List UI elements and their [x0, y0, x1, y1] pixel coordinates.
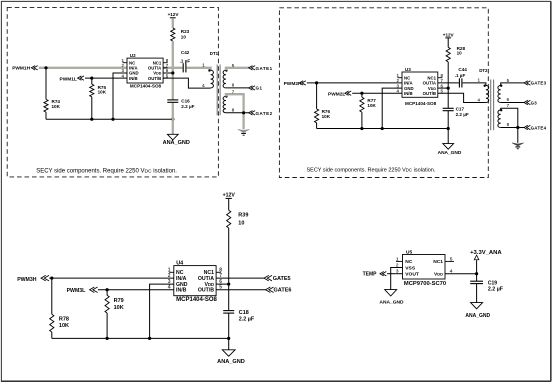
- port connector GATE6: [266, 287, 274, 293]
- svg-text:10: 10: [457, 51, 463, 56]
- port connector GATE2: [249, 111, 255, 115]
- wire TEMP to U5 VOUT: [387, 273, 402, 275]
- svg-text:C18: C18: [239, 310, 249, 316]
- svg-text:PWM1H: PWM1H: [12, 66, 30, 72]
- wire U4 OUT/A to GATE5: [216, 277, 264, 279]
- svg-text:10K: 10K: [59, 323, 69, 329]
- wire R78 to ground rail: [51, 332, 53, 338]
- wire DT1 pin 5 to GATE1 (highlighted net): [226, 68, 250, 71]
- wire PWM1L to U2 INB: [85, 77, 127, 79]
- svg-text:ANA_GND: ANA_GND: [379, 299, 404, 305]
- svg-text:3: 3: [396, 269, 399, 275]
- svg-text:C44: C44: [458, 67, 467, 72]
- isolation boundary box (SECY side, left): [7, 7, 218, 177]
- pin stub U3 pin 8: [438, 77, 443, 79]
- svg-text:PWM2L: PWM2L: [328, 91, 345, 97]
- wire R39 to VDD and C18: [228, 228, 230, 310]
- wire DT2 pin 6 to G3: [501, 102, 525, 104]
- port connector GATE5: [264, 275, 272, 281]
- svg-text:+12V: +12V: [168, 12, 180, 17]
- svg-text:PWM3H: PWM3H: [17, 277, 37, 283]
- svg-text:PWM2H: PWM2H: [284, 81, 302, 87]
- ground ANA_GND (section 3): [222, 350, 235, 356]
- ground ANA_GND (U5 VSS): [385, 290, 397, 296]
- wire DT2 pin 8 to GATE4: [501, 127, 525, 129]
- wire DT2 pin 5 to GATE3: [501, 83, 525, 86]
- transformer DT2 secondary winding upper: [498, 86, 501, 103]
- svg-text:2: 2: [396, 263, 399, 269]
- junction GATE2/ground column: [242, 111, 245, 114]
- svg-text:10K: 10K: [367, 103, 376, 108]
- capacitor C16: [167, 100, 178, 102]
- ground ANA_GND (section 1): [167, 134, 178, 140]
- port connector PWM3L: [90, 287, 98, 293]
- svg-text:1: 1: [396, 256, 399, 262]
- wire U5 VDD to +3.3V_ANA and C19: [445, 273, 477, 275]
- driver IC U2 body: [127, 58, 163, 83]
- svg-text:GATE2: GATE2: [256, 111, 273, 116]
- ground rail wire (section 2): [317, 128, 449, 130]
- resistor R79: [105, 295, 109, 313]
- svg-text:R79: R79: [114, 298, 124, 304]
- svg-text:C17: C17: [456, 107, 465, 112]
- svg-text:10K: 10K: [322, 114, 331, 119]
- wire U3 OUTA to C44: [438, 82, 459, 84]
- svg-text:+12V: +12V: [223, 193, 236, 199]
- junction GND drop/ground rail (section 2): [381, 127, 384, 130]
- transformer DT2 primary winding: [486, 86, 489, 103]
- svg-text:R78: R78: [59, 316, 69, 322]
- power +12V bar symbol: [170, 17, 176, 19]
- svg-text:+3.3V_ANA: +3.3V_ANA: [470, 250, 502, 256]
- junction VDD pin/+12V column: [171, 71, 174, 74]
- svg-text:C42: C42: [181, 50, 190, 55]
- wire PWM1L junction down to R75: [91, 78, 93, 84]
- port connector PWM1L: [78, 76, 84, 80]
- pin stub U3 pin 1: [398, 77, 403, 79]
- power +12V bar symbol (section 2): [445, 37, 451, 39]
- svg-text:10K: 10K: [98, 90, 107, 95]
- junction U4 VDD/+12V column: [227, 283, 230, 286]
- wire PWM2L junction down to R77: [361, 93, 363, 97]
- junction PWM3L/R79: [106, 288, 109, 291]
- svg-text:MCP1404-SO8: MCP1404-SO8: [405, 101, 437, 106]
- wire R77 to ground rail: [361, 112, 363, 128]
- svg-text:NC: NC: [405, 259, 413, 265]
- svg-text:IN/B: IN/B: [404, 91, 413, 96]
- temp sensor IC U5 body: [403, 255, 446, 280]
- ground rail wire (section 3): [52, 337, 229, 339]
- wire U4 OUT/B to GATE6: [216, 289, 266, 291]
- svg-text:GATE1: GATE1: [256, 66, 273, 71]
- wire U4 GND pin to ground rail: [150, 284, 174, 338]
- junction PWM3H/R78: [50, 277, 53, 280]
- wire U3 VDD pin to +12V column: [438, 87, 448, 89]
- svg-text:OUT/B: OUT/B: [423, 91, 436, 96]
- wire DT1 pin 8 to GATE2: [226, 112, 250, 114]
- wire PWM3H junction down to R78: [51, 278, 53, 314]
- svg-text:+12V: +12V: [443, 32, 455, 37]
- junction U3 VDD/+12V column: [447, 87, 450, 90]
- wire C42 to DT1 primary (highlighted net): [187, 68, 211, 71]
- svg-text:MCP1404-SO8: MCP1404-SO8: [130, 84, 162, 89]
- transformer DT2 secondary winding lower: [498, 110, 501, 128]
- phase dot DT1 primary: [208, 69, 210, 71]
- port connector G3: [524, 100, 530, 104]
- wire U3 GND pin to ground rail: [382, 88, 402, 128]
- transformer DT1 secondary winding lower: [223, 96, 226, 112]
- svg-text:VOUT: VOUT: [405, 272, 419, 278]
- pin stub U4 pin 8: [216, 271, 221, 273]
- capacitor C44: [459, 78, 462, 87]
- resistor R75: [90, 84, 94, 97]
- transformer DT1 primary winding: [211, 70, 214, 88]
- wire U5 VSS to ANA_GND: [391, 268, 403, 290]
- wire R75 to ground rail: [91, 97, 93, 119]
- wire U4 VDD pin to +12V column: [216, 283, 229, 285]
- pin stub U2 pin 5: [163, 77, 168, 79]
- svg-text:ANA_GND: ANA_GND: [438, 150, 462, 156]
- junction R77/ground rail: [360, 127, 363, 130]
- svg-text:10K: 10K: [52, 104, 61, 109]
- svg-text:.1 µF: .1 µF: [455, 73, 466, 78]
- capacitor C18: [223, 311, 234, 314]
- svg-text:U3: U3: [405, 67, 411, 72]
- svg-text:10: 10: [181, 35, 187, 40]
- junction node PWM1H/R74: [44, 66, 47, 69]
- svg-text:VSS: VSS: [405, 265, 416, 271]
- svg-text:DT1: DT1: [210, 51, 219, 56]
- port connector GATE1: [249, 66, 255, 70]
- svg-text:GATE5: GATE5: [273, 276, 291, 282]
- wire R76 to ground rail: [316, 123, 318, 129]
- svg-text:GATE3: GATE3: [531, 81, 547, 86]
- resistor R76: [315, 109, 319, 123]
- wire C16 to ANA_GND (highlighted net): [172, 103, 174, 135]
- ground symbol (DT2 secondary): [512, 143, 524, 149]
- resistor R23: [171, 28, 175, 41]
- svg-text:4: 4: [168, 285, 171, 291]
- junction PWM2L/R77: [360, 92, 363, 95]
- svg-text:.1 µF: .1 µF: [180, 59, 191, 64]
- svg-text:2.2 µF: 2.2 µF: [488, 286, 504, 292]
- port connector G1: [249, 86, 255, 90]
- resistor R74: [44, 99, 48, 112]
- junction ground rail/ANA_GND column (section 3): [227, 337, 230, 340]
- svg-text:NC1: NC1: [433, 259, 443, 265]
- transformer DT1 core: [217, 65, 220, 116]
- wire PWM3H to U4 IN/A: [49, 277, 174, 279]
- phase dot DT1 secondary upper: [225, 69, 227, 71]
- power symbol +3.3V_ANA: [474, 255, 479, 260]
- port connector PWM1H: [31, 66, 37, 70]
- pin stub U4 pin 1: [169, 271, 174, 273]
- wire C17 to ANA_GND (section 2): [447, 111, 449, 144]
- wire PWM1H junction down to R74: [45, 68, 47, 100]
- svg-text:5: 5: [450, 256, 453, 262]
- svg-text:10K: 10K: [114, 305, 124, 311]
- svg-text:ANA_GND: ANA_GND: [163, 140, 190, 146]
- driver IC U3 body: [402, 72, 438, 97]
- svg-text:PWM1L: PWM1L: [60, 76, 77, 82]
- wire PWM2H junction down to R76: [316, 83, 318, 109]
- svg-text:OUT/B: OUT/B: [198, 288, 214, 294]
- wire DT1 pin 6 to G1: [226, 87, 250, 89]
- svg-text:R23: R23: [181, 29, 190, 34]
- resistor R28: [446, 47, 450, 62]
- port connector GATE4: [524, 125, 530, 129]
- ground ANA_GND (C19): [471, 303, 483, 309]
- svg-text:ANA_GND: ANA_GND: [217, 359, 245, 365]
- wire U2 OUTB to DT1 primary pin 4: [163, 78, 211, 88]
- wire R79 to ground rail: [106, 313, 108, 338]
- junction U5 VDD/C19: [475, 272, 478, 275]
- junction GND drop/ground rail (section 3): [148, 337, 151, 340]
- junction R75/ground rail: [90, 118, 93, 121]
- wire +12V to R23 (highlighted net): [172, 18, 174, 28]
- phase dot DT1 secondary lower: [225, 95, 227, 97]
- resistor R78: [50, 314, 54, 332]
- ground ANA_GND (section 2): [443, 144, 454, 150]
- svg-text:SECY side components. Require: SECY side components. Require 2250 VDC i…: [36, 168, 177, 174]
- port connector GATE3: [524, 81, 530, 85]
- pin stub U5 pin 5: [445, 260, 454, 262]
- pin stub U5 pin 1: [396, 260, 403, 262]
- svg-text:2.2 µF: 2.2 µF: [239, 317, 255, 323]
- wire DT2 pin 7 to ground column (section 2): [501, 108, 518, 143]
- svg-text:PWM3L: PWM3L: [67, 288, 87, 294]
- capacitor C42: [183, 63, 186, 72]
- junction PWM2H/R76: [315, 81, 318, 84]
- transformer DT2 core: [491, 80, 494, 131]
- wire PWM3L to U4 IN/B: [98, 289, 174, 291]
- port connector TEMP: [380, 272, 386, 276]
- wire PWM2H to U3 INA: [307, 82, 402, 84]
- port connector PWM2H: [299, 81, 305, 85]
- phase dot DT2 secondary upper: [500, 85, 502, 87]
- isolation boundary box (SECY side, right): [279, 8, 488, 178]
- wire DT1 pin 7 to ground column (highlighted net): [226, 94, 244, 129]
- svg-text:TEMP: TEMP: [363, 272, 378, 278]
- junction R79/ground rail: [106, 337, 109, 340]
- wire U2 OUTA to C42 (highlighted net): [163, 67, 183, 69]
- wire R74 to ground rail: [45, 112, 47, 119]
- resistor R77: [360, 97, 364, 112]
- wire R28 to VDD and C17: [447, 62, 449, 108]
- wire C19 to ANA_GND: [476, 284, 478, 303]
- port connector PWM3H: [41, 275, 49, 281]
- junction ground rail/ANA_GND column (section 2): [447, 127, 450, 130]
- svg-text:GATE4: GATE4: [531, 125, 547, 130]
- junction GATE4/ground column: [516, 126, 519, 129]
- svg-text:2.2 µF: 2.2 µF: [181, 104, 194, 109]
- transformer DT1 secondary winding upper: [223, 70, 226, 88]
- ground symbol (DT1 secondary): [238, 129, 250, 135]
- capacitor C17: [443, 108, 454, 110]
- svg-text:GATE6: GATE6: [274, 288, 292, 294]
- port connector PWM2L: [345, 91, 351, 95]
- svg-text:2.2 µF: 2.2 µF: [456, 112, 469, 117]
- svg-text:R39: R39: [238, 212, 248, 218]
- svg-text:5: 5: [219, 285, 222, 291]
- wire U3 OUTB to DT2 primary pin 4: [438, 93, 486, 102]
- ground rail wire (section 1): [46, 118, 173, 120]
- phase dot DT2 secondary lower: [500, 109, 502, 111]
- svg-text:IN/B: IN/B: [129, 76, 138, 81]
- wire PWM1H to U2 INA (highlighted net): [39, 67, 127, 69]
- svg-text:MCP1404-SO8: MCP1404-SO8: [176, 297, 217, 303]
- wire +3.3V_ANA to VDD node: [476, 260, 478, 274]
- wire C44 to DT2 primary: [463, 83, 486, 86]
- driver IC U4 body: [174, 266, 216, 296]
- svg-text:G1: G1: [256, 86, 263, 91]
- svg-text:G3: G3: [531, 100, 538, 105]
- wire U2 GND pin to ground rail: [113, 73, 127, 119]
- resistor R39: [227, 210, 231, 228]
- wire +12V to R39: [228, 199, 230, 211]
- pin stub U2 pin 7: [163, 67, 168, 69]
- wire U2 VDD pin to +12V column: [163, 72, 173, 74]
- wire +12V to R28: [447, 38, 449, 47]
- junction GND drop/ground rail: [111, 118, 114, 121]
- svg-text:U2: U2: [130, 53, 136, 58]
- svg-text:IN/B: IN/B: [176, 288, 187, 294]
- svg-text:DT2: DT2: [479, 68, 488, 73]
- power +12V bar symbol (section 3): [226, 197, 232, 199]
- svg-text:ANA_GND: ANA_GND: [465, 313, 490, 319]
- capacitor C19: [470, 281, 483, 283]
- svg-text:SECY side components. Require: SECY side components. Require 2250 VDC i…: [307, 168, 436, 174]
- pin stub U2 pin 1: [123, 62, 128, 64]
- phase dot DT2 primary: [484, 85, 486, 87]
- wire VDD node to C19: [476, 274, 478, 281]
- wire R23 to VDD and C16 (highlighted net): [172, 41, 174, 100]
- svg-text:OUT/B: OUT/B: [148, 76, 161, 81]
- wire PWM2L to U3 INB: [352, 92, 402, 94]
- wire C18 to ANA_GND (section 3): [228, 313, 230, 350]
- wire PWM3L junction down to R79: [106, 290, 108, 296]
- pin stub U2 pin 8: [163, 62, 168, 64]
- svg-text:10: 10: [238, 220, 244, 226]
- junction node PWM1L/R75: [90, 77, 93, 80]
- svg-text:MCP9700-SC70: MCP9700-SC70: [404, 281, 446, 287]
- junction ground rail/ANA_GND column: [171, 118, 174, 121]
